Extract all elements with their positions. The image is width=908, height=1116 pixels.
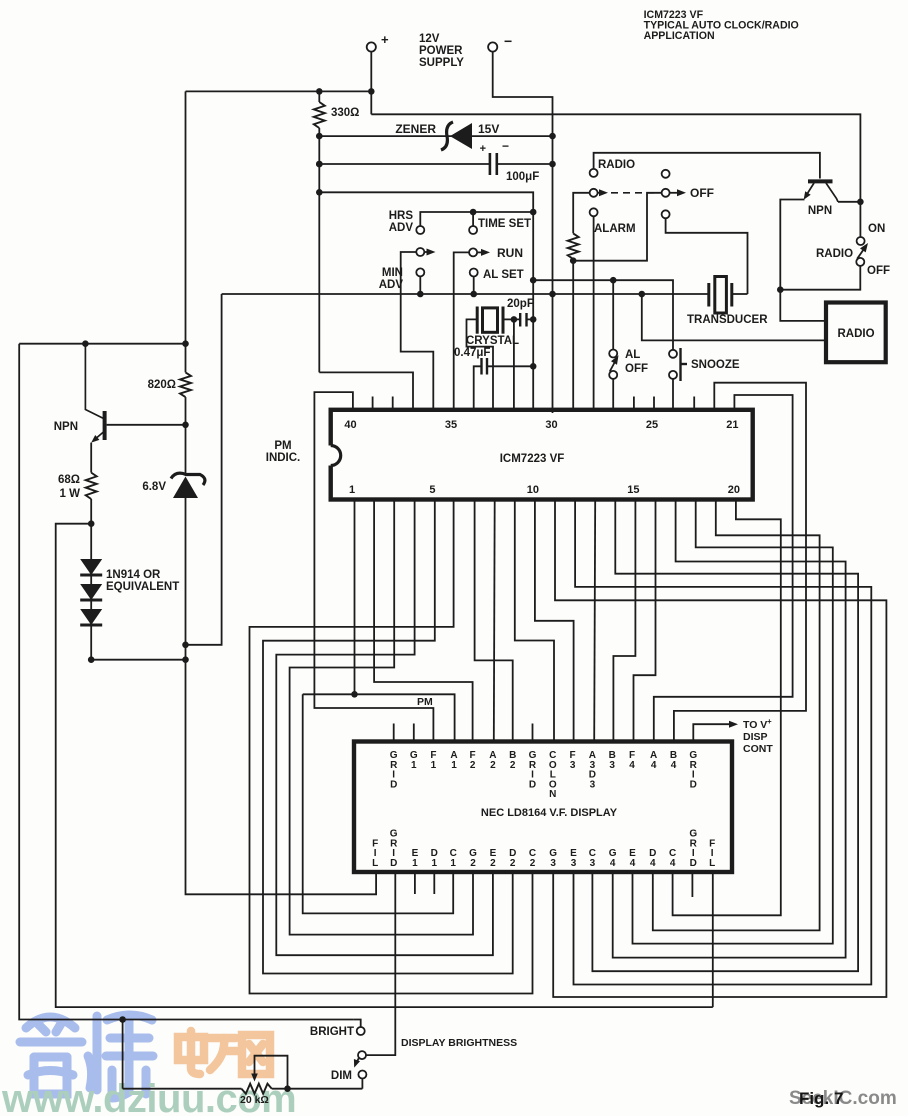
wire radio box feed — [642, 294, 826, 340]
svg-text:+: + — [767, 717, 772, 726]
label ICM7223 VF — [500, 453, 565, 465]
node MIN on vminus — [417, 291, 424, 298]
node AL SET on vminus — [470, 291, 477, 298]
label 1N914 — [106, 569, 179, 593]
pin 8 wire to A2 — [493, 500, 496, 742]
display top pin A2 label — [489, 750, 496, 771]
zener diode 15V — [441, 122, 472, 150]
wire bright hook — [354, 1020, 361, 1028]
wire GRID right stub — [691, 873, 693, 897]
svg-text:ICM7223 VF: ICM7223 VF — [500, 453, 565, 465]
wire grid-left down — [366, 873, 395, 1055]
wire snooze to pin24 — [672, 379, 674, 410]
wire diode bc — [90, 600, 92, 609]
wire npn-l emitter down — [90, 443, 92, 473]
wire emitter to radio box — [780, 290, 826, 321]
label RADIO switch — [816, 248, 853, 260]
pin 10 wire to F3 — [535, 500, 574, 742]
label CRYSTAL — [466, 335, 519, 347]
svg-text:15: 15 — [627, 484, 639, 496]
node npn-r collector — [857, 199, 864, 206]
label 12V POWER SUPPLY — [419, 33, 464, 69]
svg-text:30: 30 — [545, 419, 557, 431]
wire on switch col — [859, 202, 861, 237]
wire left fil column — [186, 660, 377, 895]
node 20pF right — [530, 316, 537, 323]
svg-text:1: 1 — [412, 858, 418, 869]
label HRS ADV — [389, 210, 414, 234]
pin 20 wire right bus — [673, 500, 781, 916]
switch SNOOZE top — [669, 350, 677, 358]
svg-text:4: 4 — [671, 760, 677, 771]
label AL SET — [483, 269, 524, 281]
pin 39 nc stub — [372, 397, 374, 410]
svg-text:6.8V: 6.8V — [142, 481, 166, 493]
wire V- long line — [222, 293, 709, 295]
label NPN right — [808, 205, 832, 217]
wire gang lower to transducer — [666, 218, 748, 294]
wire 330 col mid — [318, 128, 320, 372]
svg-text:NEC LD8164 V.F. DISPLAY: NEC LD8164 V.F. DISPLAY — [481, 807, 618, 819]
wire V- west corner — [186, 294, 222, 645]
wire ALOFF to pin27 — [612, 379, 614, 410]
node 330-rail192 — [316, 189, 323, 196]
pin 2 wire to F2 — [374, 500, 473, 742]
svg-text:D: D — [390, 779, 397, 790]
pin 15 wire to B3 — [613, 500, 635, 742]
node V- transducer branch — [639, 291, 646, 298]
watermark seekic — [789, 1088, 897, 1109]
pin 26 nc stub — [633, 397, 635, 410]
12V power supply + terminal — [367, 32, 389, 52]
switch SNOOZE bottom — [669, 371, 677, 379]
label SNOOZE — [691, 359, 740, 371]
display top pin GRID label — [529, 750, 537, 790]
watermark glyphs — [1, 1015, 296, 1116]
display bottom pin C3 label — [589, 848, 596, 869]
label Fig 7 — [799, 1089, 843, 1108]
pin 38 nc stub — [392, 397, 394, 410]
label ON — [868, 223, 885, 235]
display top pin COLON label — [549, 750, 557, 800]
pin 6 wire left — [250, 500, 533, 994]
wire wiper — [251, 1056, 287, 1089]
diode 1N914 a — [80, 559, 102, 575]
switch AL OFF bottom — [609, 371, 617, 379]
display bottom pin G3 label — [549, 848, 557, 869]
svg-text:PM: PM — [417, 696, 433, 708]
switch AL OFF top — [609, 350, 617, 358]
diode 1N914 c — [80, 609, 102, 625]
label BRIGHT — [310, 1026, 354, 1038]
display bottom pin E3 label — [570, 848, 577, 869]
svg-text:L: L — [372, 858, 378, 869]
display G1 top nc stub — [413, 724, 415, 742]
pin 14 wire right bus — [592, 500, 858, 972]
wire ALOFF down — [612, 280, 614, 349]
svg-text:AL: AL — [625, 349, 640, 361]
wire timeset rail — [319, 192, 533, 409]
svg-text:4: 4 — [650, 858, 656, 869]
pin 23 nc stub — [693, 397, 695, 410]
svg-text:15V: 15V — [478, 122, 499, 136]
label 15V — [478, 122, 499, 136]
svg-text:3: 3 — [609, 760, 615, 771]
wire ALOFF line — [533, 279, 613, 281]
label AL OFF — [625, 349, 648, 375]
node + rail junction — [368, 88, 375, 95]
display bottom pin D4 label — [649, 848, 656, 869]
label RUN — [497, 246, 523, 260]
pin 22 wire to B4 — [674, 383, 806, 742]
svg-text:NPN: NPN — [54, 421, 78, 433]
label DISPLAY BRIGHTNESS — [401, 1037, 517, 1049]
wire alarm contact to pin28 — [593, 216, 595, 410]
wire 20pF left lead — [514, 318, 520, 320]
transducer — [709, 277, 732, 314]
svg-text:20pF: 20pF — [507, 298, 534, 310]
wire timeset contact stub — [472, 212, 474, 226]
radio box — [826, 303, 886, 363]
svg-text:ZENER: ZENER — [395, 122, 436, 136]
pin 12 wire right bus — [574, 500, 872, 985]
svg-text:DISP: DISP — [743, 731, 768, 743]
svg-text:40: 40 — [344, 419, 356, 431]
pin 4 wire left — [276, 500, 493, 956]
display bottom pin FIL label — [709, 838, 715, 869]
display bottom pin C1 label — [450, 848, 457, 869]
wire gang arm arrow — [670, 189, 687, 196]
wire pin1 to A1 — [303, 694, 455, 741]
node timeset bar right — [530, 209, 537, 216]
label OFF radio — [867, 265, 890, 277]
svg-text:3: 3 — [590, 858, 596, 869]
wire 6.8 down — [185, 498, 187, 660]
svg-text:3: 3 — [570, 760, 576, 771]
svg-text:BRIGHT: BRIGHT — [310, 1026, 354, 1038]
svg-text:21: 21 — [726, 419, 738, 431]
wire emitter node — [90, 499, 92, 559]
resistor 820ohm — [148, 372, 191, 397]
node left col rail — [182, 340, 189, 347]
svg-text:10: 10 — [527, 484, 539, 496]
switch RADIO ON contact — [857, 237, 865, 245]
resistor ALARM — [568, 223, 636, 259]
label NEC LD8164 — [481, 807, 618, 819]
wire 820 to base node — [185, 397, 187, 474]
label DIM — [331, 1070, 352, 1082]
switch RADIO OFF contact — [856, 258, 864, 266]
wire pot line — [123, 1088, 363, 1090]
label 100uF polarity — [480, 139, 509, 155]
display top pin B2 label — [509, 750, 516, 771]
pin 1 label bottom — [349, 484, 355, 496]
display D1 nc stub — [433, 873, 435, 894]
svg-text:20: 20 — [728, 484, 740, 496]
node ALOFF junction — [610, 277, 617, 284]
svg-text:4: 4 — [670, 858, 676, 869]
node zener right — [549, 133, 556, 140]
wire radio contact to npn base — [594, 153, 820, 179]
display top pin G1 label — [410, 750, 418, 771]
capacitor 20pF — [520, 313, 526, 327]
pin 21 wire to A4 — [654, 395, 793, 742]
wire 0.47uF left to pin34 — [474, 366, 482, 410]
svg-text:RUN: RUN — [497, 246, 523, 260]
wire left tall down — [19, 344, 354, 1020]
label TO V+ DISP CONT — [743, 717, 773, 755]
switch RADIO ON/OFF arm — [857, 243, 868, 259]
display top pin GRID label — [689, 750, 697, 790]
pin 40 wire PM to F1 — [314, 392, 433, 741]
wire AL SET stub — [473, 276, 475, 294]
pin 35 label top — [445, 419, 457, 431]
switch HRS ADV top contact — [416, 226, 424, 234]
pin 20 label bottom — [728, 484, 740, 496]
display bottom pin GRID label — [390, 829, 398, 869]
svg-text:RADIO: RADIO — [837, 328, 874, 340]
svg-text:5: 5 — [429, 484, 435, 496]
display top pin GRID label — [390, 750, 398, 790]
node 6.8 bottom — [182, 642, 189, 649]
svg-text:OFF: OFF — [867, 265, 890, 277]
svg-text:4: 4 — [629, 760, 635, 771]
svg-text:D: D — [690, 779, 697, 790]
wire left +12 column — [185, 91, 187, 372]
switch MIN ADV lower contact — [416, 268, 424, 276]
wire branch to left margin — [56, 524, 713, 1007]
diode 1N914 b — [80, 584, 102, 600]
switch AL OFF arm — [610, 355, 619, 371]
svg-text:1: 1 — [349, 484, 355, 496]
svg-text:0.47μF: 0.47μF — [454, 347, 490, 359]
svg-text:SNOOZE: SNOOZE — [691, 359, 740, 371]
display bottom pin D1 label — [431, 848, 438, 869]
svg-text:ADV: ADV — [389, 222, 414, 234]
svg-text:POWER: POWER — [419, 45, 463, 57]
label TIME SET — [478, 218, 531, 230]
wire 0.47uF right lead — [487, 365, 533, 367]
wire alarm res to pin29 — [572, 259, 574, 410]
wire MIN arm west — [401, 252, 434, 410]
svg-text:EQUIVALENT: EQUIVALENT — [106, 581, 179, 593]
svg-text:100μF: 100μF — [506, 171, 539, 183]
svg-text:TO V: TO V — [743, 719, 767, 731]
switch BRIGHT contact — [357, 1027, 365, 1035]
potentiometer 20k — [240, 1084, 272, 1106]
display bottom pin G2 label — [469, 848, 477, 869]
svg-text:RADIO: RADIO — [816, 248, 853, 260]
switch TIME SET contact — [469, 226, 477, 234]
display top pin F4 label — [629, 750, 635, 771]
wire 100uF line left — [319, 163, 490, 165]
wire radio arm west jog — [573, 193, 590, 234]
svg-text:PM: PM — [274, 440, 291, 452]
pin 11 wire right bus — [553, 500, 886, 998]
label MIN ADV — [379, 267, 404, 291]
svg-text:12V: 12V — [419, 33, 440, 45]
label PM INDIC — [266, 440, 301, 464]
label PM wire — [417, 696, 433, 708]
pin 1 wire down — [354, 500, 356, 695]
switch gang lower contact — [662, 210, 670, 218]
pin 3 wire left — [290, 500, 473, 935]
node 330-zener — [316, 133, 323, 140]
wire transducer right — [732, 293, 748, 295]
svg-text:TRANSDUCER: TRANSDUCER — [687, 314, 768, 326]
node collector junction — [82, 340, 89, 347]
wire FIL right stub — [712, 873, 714, 1007]
svg-text:DISPLAY BRIGHTNESS: DISPLAY BRIGHTNESS — [401, 1037, 517, 1049]
pin 5 wire left — [263, 500, 513, 974]
pin 18 wire right bus — [633, 500, 833, 944]
op-amp U1 ICM7223 VF body — [328, 410, 753, 500]
svg-text:820Ω: 820Ω — [148, 379, 176, 391]
wire 330 to pin37 — [319, 372, 413, 409]
display bottom pin C4 label — [669, 848, 676, 869]
svg-text:CONT: CONT — [743, 743, 773, 755]
wire npn-l base — [107, 424, 186, 426]
switch DIM contact — [358, 1071, 366, 1079]
display NEC LD8164 body — [354, 742, 732, 873]
svg-text:2: 2 — [470, 858, 476, 869]
svg-text:+: + — [381, 32, 389, 47]
svg-text:3: 3 — [571, 858, 577, 869]
wire +12V to radio long — [371, 114, 860, 202]
node bright line branch — [119, 1016, 126, 1023]
node diode bottom junction — [88, 656, 95, 663]
wire zener line — [319, 135, 552, 137]
display top pin F1 label — [430, 750, 436, 771]
12V power supply - terminal — [488, 33, 512, 52]
svg-text:L: L — [709, 858, 715, 869]
label TRANSDUCER — [687, 314, 768, 326]
wire 100uF line right — [497, 163, 553, 165]
switch AL SET contact — [470, 269, 478, 277]
node 0.47uF on col31 — [530, 363, 537, 370]
svg-text:4: 4 — [630, 858, 636, 869]
svg-text:68Ω: 68Ω — [58, 474, 80, 486]
switch RADIO contact — [590, 169, 598, 177]
label 0.47uF — [454, 347, 490, 359]
wire pin1 left bus — [303, 694, 454, 913]
display bottom pin GRID label — [689, 829, 697, 869]
node base junction — [182, 422, 189, 429]
node timeset contact — [470, 209, 477, 216]
capacitor 0.47uF — [482, 358, 488, 375]
crystal symbol — [477, 307, 503, 334]
display top pin A1 label — [450, 750, 457, 771]
capacitor 100uF — [490, 153, 497, 175]
resistor 68ohm — [58, 473, 97, 500]
wire pot west — [122, 1020, 124, 1089]
svg-text:AL SET: AL SET — [483, 269, 524, 281]
svg-text:25: 25 — [646, 419, 658, 431]
wire - terminal down — [493, 52, 553, 413]
switch ALARM contact — [590, 208, 598, 216]
wire diode ab — [90, 575, 92, 584]
pin 19 wire right bus — [653, 500, 820, 931]
svg-text:3: 3 — [590, 779, 596, 790]
node pin1 junction — [351, 691, 358, 698]
node radio emitter junction — [777, 286, 784, 293]
svg-text:4: 4 — [610, 858, 616, 869]
display top pin B3 label — [609, 750, 616, 771]
wire 330 col top — [318, 91, 320, 102]
pin 15 label bottom — [627, 484, 639, 496]
display top pin F3 label — [570, 750, 576, 771]
wire npn-r collector — [838, 201, 860, 203]
node alarm res bottom — [570, 257, 577, 264]
svg-text:1N914 OR: 1N914 OR — [106, 569, 161, 581]
display bottom pin D2 label — [509, 848, 516, 869]
wire diode bottom — [90, 625, 92, 660]
svg-text:SUPPLY: SUPPLY — [419, 57, 464, 69]
svg-text:1: 1 — [451, 760, 457, 771]
node pot wiper tie — [284, 1085, 291, 1092]
transistor NPN left — [85, 344, 104, 443]
pin 9 wire to COLON — [515, 500, 554, 742]
svg-text:2: 2 — [470, 760, 476, 771]
svg-text:20 kΩ: 20 kΩ — [240, 1094, 269, 1106]
wire gang arm tie — [573, 193, 662, 261]
switch DIM arm — [354, 1058, 360, 1067]
zener diode 6.8V — [171, 473, 205, 498]
display bottom pin E1 label — [412, 848, 419, 869]
svg-text:D: D — [690, 858, 697, 869]
svg-text:DIM: DIM — [331, 1070, 352, 1082]
pin 17 wire right bus — [613, 500, 846, 958]
display bottom pin FIL label — [372, 838, 378, 869]
display top pin F2 label — [470, 750, 476, 771]
pin 13 wire to A3D3 — [594, 500, 595, 742]
node 100uF right rail — [549, 161, 556, 168]
node emitter branch — [88, 520, 95, 527]
pin 21 label top — [726, 419, 738, 431]
display top pin A4 label — [650, 750, 657, 771]
wire radio arm arrow — [598, 189, 609, 196]
svg-text:2: 2 — [530, 858, 536, 869]
switch gang arm contact — [662, 189, 670, 197]
svg-text:ALARM: ALARM — [594, 223, 636, 235]
label ZENER — [395, 122, 436, 136]
switch RUN arm contact — [469, 248, 477, 256]
pin 40 label top — [344, 419, 356, 431]
pin 7 wire to B2 — [475, 500, 513, 742]
label RADIO top — [598, 159, 635, 171]
display top pin B4 label — [670, 750, 677, 771]
pin 30 label top — [545, 419, 557, 431]
wire crystal right lead — [503, 318, 514, 320]
pin 25 nc stub — [653, 397, 655, 410]
display bottom pin C2 label — [529, 848, 536, 869]
wire + terminal down — [370, 52, 372, 115]
svg-text:INDIC.: INDIC. — [266, 452, 301, 464]
switch DIM pivot — [358, 1051, 366, 1059]
svg-text:N: N — [549, 789, 556, 800]
wire ganged dashes — [611, 192, 658, 194]
wire RUN arm west to pin35 — [454, 252, 470, 409]
wire MIN arm arrow — [424, 249, 435, 256]
wire TO V+ arrow — [693, 721, 738, 742]
display bottom pin G4 label — [609, 848, 617, 869]
switch MIN ADV arm contact — [416, 248, 424, 256]
node 330-cap — [316, 161, 323, 168]
node 6.8 fil junction — [182, 656, 189, 663]
node 330 top — [316, 88, 323, 95]
wire pin32 stub — [513, 319, 515, 409]
wire off contact down — [780, 266, 860, 290]
